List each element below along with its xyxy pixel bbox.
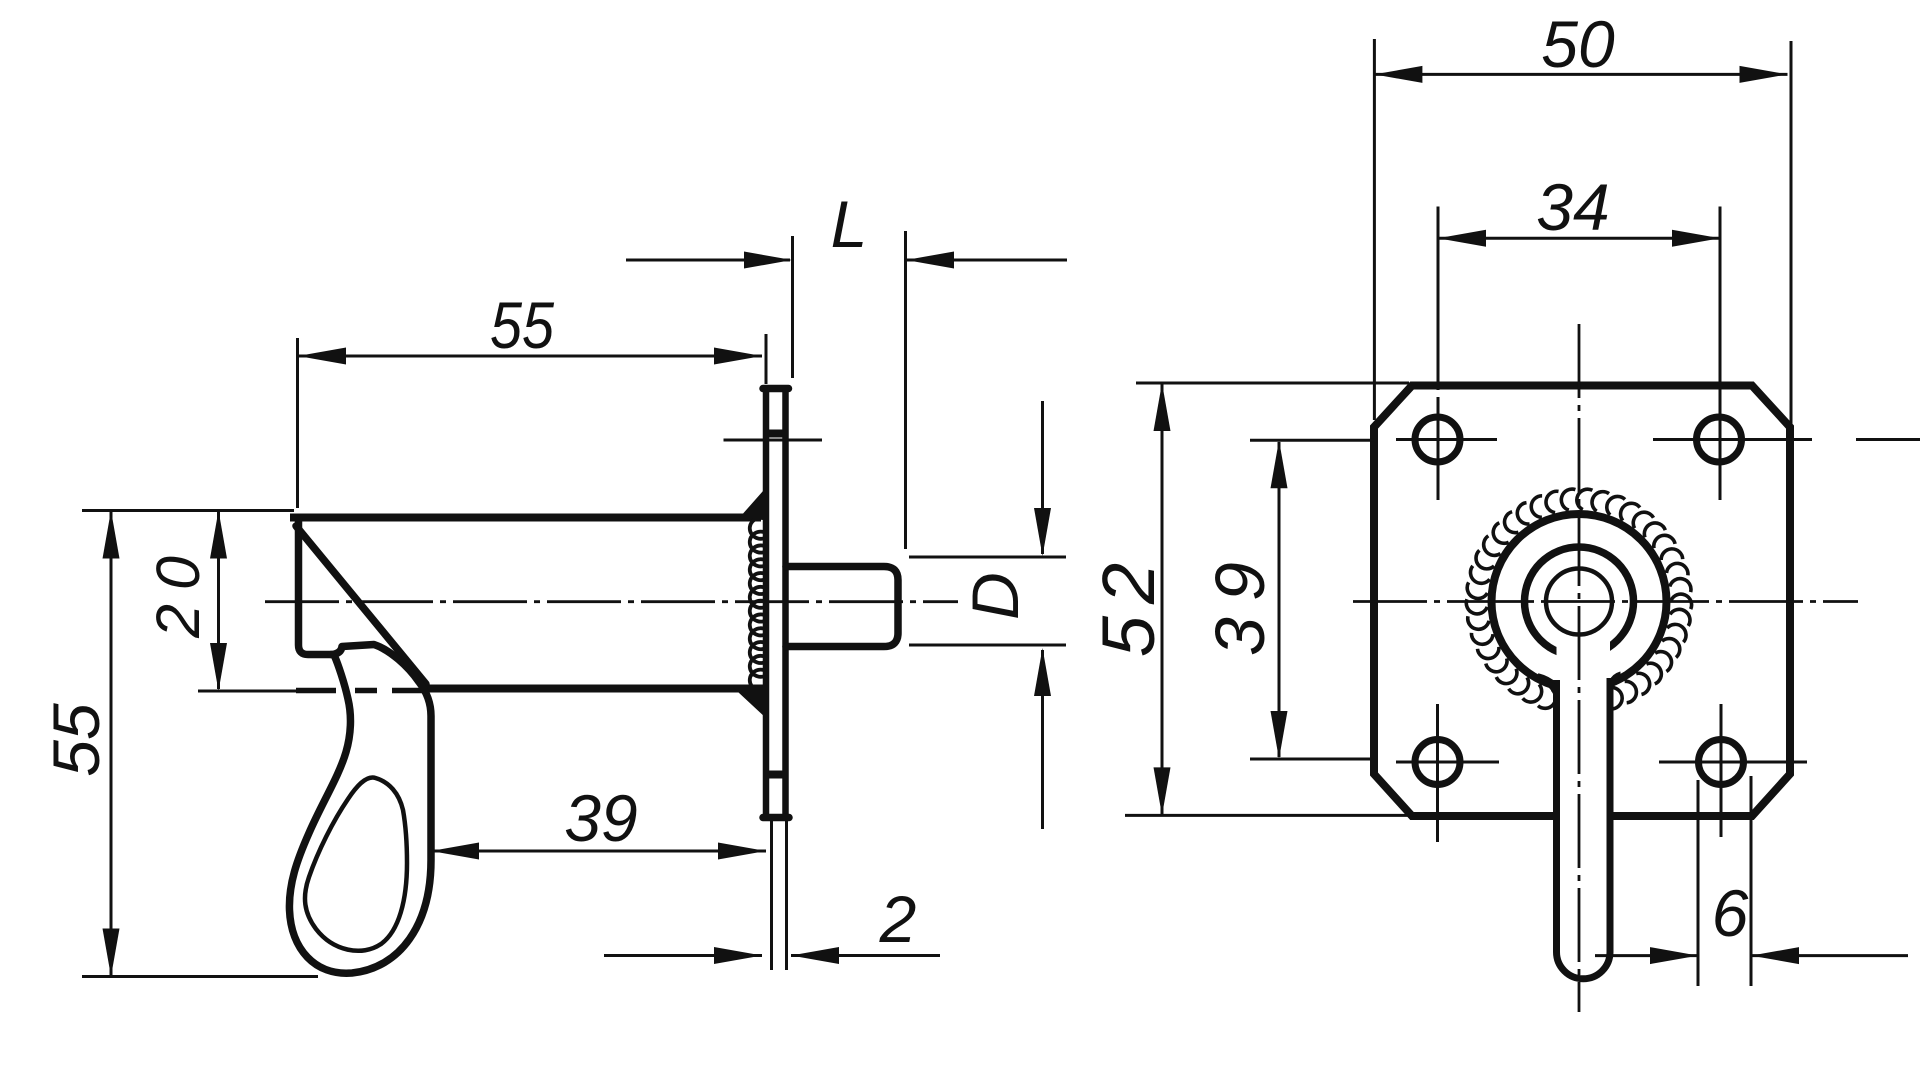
bolt hole inner circle: [1546, 569, 1612, 635]
dim 20 (vertical, left): [82, 509, 294, 512]
svg-text:50: 50: [1541, 7, 1615, 81]
coil spring (side view, small arcs): [750, 518, 768, 691]
hidden bottom edge behind thumb lever (dashed): [296, 688, 424, 694]
svg-text:39: 39: [1201, 546, 1279, 656]
hidden hole marks on plate: [769, 430, 783, 438]
dim 50 (top): [1373, 39, 1376, 420]
thumb lever inner (hole) outline: [305, 778, 407, 951]
dim 6 (lever width): [1697, 780, 1700, 986]
mounting hole bottom-left: [1415, 740, 1460, 785]
mounting hole bottom-right: [1699, 740, 1744, 785]
boss middle circle: [1525, 547, 1634, 656]
dim L (top right): [791, 236, 794, 378]
svg-text:20: 20: [144, 542, 212, 639]
boss outer circle: [1492, 514, 1667, 689]
svg-text:55: 55: [39, 703, 113, 777]
dim 39 (right view, vertical): [1250, 439, 1374, 442]
dim 55 (top, horizontal): [296, 338, 299, 508]
svg-text:L: L: [831, 187, 868, 261]
mounting plate outline (right view, chamfered square): [1374, 386, 1790, 817]
centerline of bolt axis (left view): [265, 600, 958, 603]
operating lever (front view): [1557, 601, 1611, 979]
dim 34: [1437, 207, 1440, 391]
svg-text:39: 39: [564, 781, 637, 855]
plate centerline vertical (right view): [1578, 324, 1581, 1012]
svg-text:6: 6: [1712, 876, 1749, 950]
dim 55 (vertical, far left): [82, 975, 318, 978]
fillet between body and plate (top): [742, 491, 765, 517]
body diagonal edge: [296, 526, 426, 684]
dim 2 (plate thickness): [770, 820, 773, 970]
thumb lever (teardrop) outer outline: [289, 645, 431, 974]
dim 52 (left of right view): [1136, 382, 1409, 385]
svg-text:55: 55: [490, 288, 554, 362]
upper hole centerline (left view): [724, 439, 823, 442]
svg-text:52: 52: [1087, 551, 1170, 657]
svg-text:D: D: [958, 572, 1032, 620]
bolt pin (left view): [786, 567, 898, 647]
svg-text:34: 34: [1536, 170, 1609, 244]
mounting hole top-right: [1697, 417, 1742, 462]
lever-boss fillets: [1538, 675, 1557, 707]
fillet between body and plate (bottom): [737, 689, 765, 715]
dim D (bolt diameter): [909, 556, 1066, 559]
latch body outline (left view): [294, 514, 757, 522]
spring hatching around boss: [1466, 489, 1691, 709]
mounting plate (edge-on, left view): [763, 385, 789, 393]
dim 39 (bottom, horizontal, left view): [431, 850, 766, 853]
plate centerline horizontal (right view): [1353, 600, 1858, 603]
mounting hole top-left: [1415, 417, 1460, 462]
svg-text:2: 2: [879, 882, 917, 956]
body bottom edge: [426, 685, 764, 693]
